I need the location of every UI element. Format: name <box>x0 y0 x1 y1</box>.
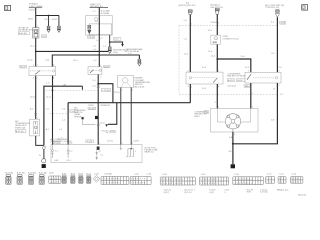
compressor clutch terminal circle <box>43 147 46 150</box>
svg-text:4-(2Y): 4-(2Y) <box>133 140 139 142</box>
ground stack G1: link box <box>108 47 111 50</box>
condenser fan motor box <box>211 109 259 133</box>
svg-text:12345678: 12345678 <box>131 179 146 181</box>
compressor text <box>50 138 71 143</box>
svg-text:4: 4 <box>191 86 192 88</box>
wire: relay A-08 out down <box>97 74 99 144</box>
svg-text:DK-B: DK-B <box>52 19 58 21</box>
connector A-07 <box>17 172 25 185</box>
svg-text:FAN MOTOR RELAY: FAN MOTOR RELAY <box>227 75 247 78</box>
fusible link symbol 2 <box>57 26 60 32</box>
svg-text:(A/C) B-09: (A/C) B-09 <box>135 85 146 88</box>
svg-text:123: 123 <box>266 178 272 180</box>
svg-text:12: 12 <box>29 179 33 181</box>
connector B-13 <box>86 173 91 183</box>
clutch coil circle <box>42 159 46 163</box>
svg-text:A-07 (B): A-07 (B) <box>16 130 24 133</box>
wire drop to FL symbol 2 <box>58 16 60 27</box>
svg-text:123: 123 <box>266 182 272 184</box>
notes wire continuation <box>96 150 98 160</box>
node junction (232.9,143.8) <box>232 143 234 145</box>
svg-text:(2Y-1): (2Y-1) <box>108 140 114 142</box>
dashed boundary left y=113.8 <box>50 113 67 115</box>
svg-text:(2Y) 4-J: (2Y) 4-J <box>184 192 191 194</box>
svg-text:12: 12 <box>71 178 75 180</box>
notes wire 4 stub <box>120 145 122 151</box>
fusible link FL feed label <box>29 4 43 12</box>
svg-text:2: 2 <box>132 90 133 92</box>
svg-text:1: 1 <box>122 90 123 92</box>
sensor bottom labels <box>88 36 111 42</box>
wire bus y=59 to relay2 <box>217 59 251 72</box>
svg-text:FUSE 10A: FUSE 10A <box>15 126 25 129</box>
connector A-30 wide <box>49 172 61 184</box>
fan motor symbol M1 <box>225 114 240 129</box>
svg-text:2: 2 <box>37 78 38 80</box>
svg-text:1234567890123: 1234567890123 <box>161 179 184 181</box>
svg-text:(2Y-0): (2Y-0) <box>114 92 120 94</box>
feed 3 connector symbol <box>275 10 279 17</box>
svg-text:A-05X: A-05X <box>245 85 251 88</box>
pressure switch terminal dot <box>82 117 84 119</box>
node junction (48.5,15.5) <box>48 15 50 17</box>
connector B-05 <box>71 173 76 183</box>
node junction (217.3,59) <box>216 58 218 60</box>
svg-text:2(2B): 2(2B) <box>280 23 285 25</box>
relay A-08 box <box>88 67 102 75</box>
connector B-09 <box>79 173 84 183</box>
svg-text:1: 1 <box>45 146 46 148</box>
svg-text:•B W: •B W <box>246 192 251 194</box>
svg-text:A-05 (B): A-05 (B) <box>39 172 47 175</box>
svg-text:2L-05: 2L-05 <box>27 60 33 62</box>
connector C-10 <box>266 173 275 183</box>
wire inside box down <box>98 16 100 36</box>
svg-text:12: 12 <box>87 182 91 184</box>
connector B-03 <box>62 173 67 183</box>
extra wire color labels <box>30 39 275 122</box>
notes wire 5 prongs <box>126 145 134 157</box>
connector pin numbers small left <box>7 178 92 185</box>
svg-text:(MULTI) (W/O MT): (MULTI) (W/O MT) <box>179 5 196 7</box>
wire stub into notes box <box>97 147 100 150</box>
wire drop to ground stack 2 <box>138 55 140 59</box>
svg-text:A-05X: A-05X <box>228 79 234 82</box>
svg-text:1: 1 <box>122 143 123 145</box>
svg-text:4: 4 <box>53 78 54 80</box>
svg-text:12345678901: 12345678901 <box>200 179 219 181</box>
svg-text:JC (B): JC (B) <box>86 141 92 143</box>
svg-text:12: 12 <box>63 182 67 184</box>
svg-text:12: 12 <box>40 179 44 181</box>
svg-text:1: 1 <box>252 106 253 108</box>
arrow target text <box>125 48 143 53</box>
svg-text:5-J: 5-J <box>55 151 58 153</box>
wire arrow to condenser page <box>110 42 123 44</box>
svg-text:(2-1): (2-1) <box>46 97 51 99</box>
svg-text:2 (2Y-B): 2 (2Y-B) <box>260 192 268 194</box>
svg-text:12345678901: 12345678901 <box>200 183 219 185</box>
wire bus B y=55 <box>52 55 139 67</box>
wire: line down into sensor box <box>98 7 100 15</box>
svg-text:CONNECTOR (2): CONNECTOR (2) <box>222 38 239 40</box>
ref label C-0B <box>70 110 78 113</box>
joint connector text <box>222 36 239 40</box>
svg-text:1234567890123: 1234567890123 <box>161 183 184 185</box>
wire bus A y=51.4 to ground stack <box>36 50 109 52</box>
connector C-08 diamond <box>93 173 100 182</box>
relay2 lower left labels <box>244 85 251 88</box>
temp switch pin wires <box>120 88 122 145</box>
relay2 A/C relay box <box>245 72 281 83</box>
connector A-02 <box>5 172 13 185</box>
svg-text:123: 123 <box>279 178 285 180</box>
svg-text:1234: 1234 <box>291 182 299 184</box>
wire drop to FL symbol 1 <box>48 16 50 27</box>
compressor ground <box>42 164 46 168</box>
fan ground symbol <box>231 164 235 168</box>
footnote text 2 <box>184 190 195 194</box>
svg-text:B-05X: B-05X <box>237 80 243 82</box>
svg-text:1: 1 <box>99 143 100 145</box>
svg-text:5-J: 5-J <box>69 151 72 153</box>
node junction (99.3,55) <box>98 54 100 56</box>
wire: bus branch down to page arrow <box>108 103 117 125</box>
relay AC08 (A/C compressor relay) box <box>29 67 56 76</box>
svg-text:12345: 12345 <box>50 178 60 180</box>
svg-text:CONTROL (W): CONTROL (W) <box>265 7 279 9</box>
ref label JC(B) <box>88 107 96 110</box>
svg-text:(W/ RELAY BOX): (W/ RELAY BOX) <box>18 29 34 32</box>
fan motor text <box>194 111 208 117</box>
footnote text 3 <box>209 190 216 194</box>
temp switch text <box>135 78 151 89</box>
svg-text:1: 1 <box>37 65 38 67</box>
svg-text:B-03: B-03 <box>213 42 217 44</box>
svg-text:4x: (2Y-10): 4x: (2Y-10) <box>106 132 116 134</box>
relay1 condenser fan relay box <box>186 72 223 84</box>
wire: isolator down to relay AC08 <box>35 38 37 67</box>
wire: relay2 left pin down to fan box <box>250 83 252 109</box>
ground name text <box>113 50 129 54</box>
footnote text 5 <box>246 189 252 193</box>
svg-text:JOINT: JOINT <box>88 105 95 107</box>
svg-text:ASSY: ASSY <box>194 115 200 118</box>
svg-text:(2-B): (2-B) <box>113 52 118 54</box>
wire: sensor left pin down to bus <box>98 35 100 67</box>
ground stack G1: triangle <box>108 51 111 54</box>
joint connector box on feed2 <box>211 35 221 44</box>
wire: relay AC08 right out down <box>52 76 54 145</box>
relay A-08 ref label <box>104 65 110 68</box>
svg-text:1: 1 <box>37 118 38 120</box>
svg-text:4-03 4-05: 4-03 4-05 <box>227 86 237 88</box>
node junction (35.7,51.4) <box>35 51 37 53</box>
svg-text:CN-04: CN-04 <box>29 10 36 12</box>
svg-text:12: 12 <box>79 182 83 184</box>
connector C-33 long <box>130 173 152 184</box>
wire down to clutch coil <box>43 149 45 158</box>
wire: branch bus y=15.5 <box>36 15 59 17</box>
wire: main bus y=102.7 <box>68 102 190 104</box>
wire: FL down to isolator <box>35 8 37 28</box>
svg-text:1: 1 <box>252 93 253 95</box>
svg-text:12: 12 <box>7 179 11 181</box>
svg-text:12: 12 <box>40 183 44 185</box>
connector tick on wire <box>34 113 37 115</box>
dashed boundary left y=144 <box>53 143 66 145</box>
svg-text:12: 12 <box>29 183 33 185</box>
fusible link symbol 1 <box>47 26 50 32</box>
relay1 side text <box>227 73 247 87</box>
svg-text:A-08 (B): A-08 (B) <box>28 172 36 175</box>
relay AC08 ref label <box>20 65 27 68</box>
ground stack G2: link box <box>138 59 141 62</box>
wire: fuse out to compressor <box>36 136 44 146</box>
coolant temp switch box <box>118 76 134 88</box>
node junction (52.5,90.3) <box>52 89 54 91</box>
fuse left text <box>15 120 30 133</box>
svg-text:C-28 (B): C-28 (B) <box>104 173 112 175</box>
svg-text:(2-0): (2-0) <box>42 36 47 38</box>
ground stack G2: triangle <box>138 63 141 66</box>
svg-text:MB2A-1 (xx): MB2A-1 (xx) <box>277 188 289 191</box>
svg-text:3: 3 <box>278 85 279 87</box>
to-arrow glyph <box>58 137 63 140</box>
pressure switch link wire <box>83 119 96 124</box>
dashed boundary box right <box>179 26 277 95</box>
svg-text:DK-B: DK-B <box>45 19 51 21</box>
svg-text:PAGE 4-0: PAGE 4-0 <box>145 151 155 154</box>
notes wire 2 continuation <box>67 146 69 158</box>
feed 2 header text <box>210 5 223 9</box>
page index box 1 <box>5 5 11 10</box>
wire: sensor right pin down <box>109 35 111 47</box>
connector A-05X <box>39 172 47 185</box>
connector tick on pressure wire <box>97 124 100 126</box>
node junction (109.7,42) <box>109 41 111 43</box>
footnote text 6 <box>260 189 268 193</box>
svg-text:123: 123 <box>279 182 285 184</box>
isolator right ref label <box>41 35 46 38</box>
svg-text:1234567891: 1234567891 <box>102 183 121 185</box>
svg-text:A-05 (B): A-05 (B) <box>19 32 27 35</box>
labels above notes box <box>53 140 94 145</box>
svg-text:PRESS.): PRESS.) <box>74 116 83 118</box>
joint ref label on dashed <box>101 89 111 92</box>
wire: fan motor ground <box>232 132 234 164</box>
feed 1 header text <box>179 1 196 7</box>
svg-text:12: 12 <box>87 178 91 180</box>
svg-text:12: 12 <box>63 178 67 180</box>
svg-text:(2-1): (2-1) <box>100 122 105 124</box>
connector C-20 <box>291 173 303 183</box>
wire: feed1 down to relay <box>189 15 191 73</box>
feed 2 connector symbol <box>215 8 219 14</box>
arrow head down <box>105 124 108 127</box>
wire: branch right and down to main bus <box>98 84 113 103</box>
svg-text:4-(2Y): 4-(2Y) <box>164 192 170 194</box>
svg-text:JC (B): JC (B) <box>89 108 95 110</box>
feed 1 connector symbol <box>188 10 192 15</box>
isolator U1 box <box>33 28 39 38</box>
wire: relay1 right pin down to fan box <box>216 84 218 109</box>
svg-text:2: 2 <box>132 143 133 145</box>
svg-text:2: 2 <box>100 77 101 79</box>
wire: feed2 down to relay <box>216 14 218 72</box>
feed 3 header text <box>265 4 284 9</box>
svg-text:12345678901: 12345678901 <box>234 179 253 181</box>
notes wire 1 continuation <box>51 145 53 158</box>
battery line label <box>90 4 110 15</box>
connector pin numbers row1 <box>102 179 146 185</box>
connector pin numbers row2 <box>161 179 253 185</box>
svg-text:12345: 12345 <box>50 182 60 184</box>
notes box <box>51 145 142 163</box>
svg-text:12: 12 <box>18 179 22 181</box>
wire: bus left leg down to junction block <box>67 103 69 146</box>
pressure switch terminal square <box>95 116 98 119</box>
svg-text:(2-0): (2-0) <box>68 142 73 144</box>
battery sensor box U2 <box>86 16 113 36</box>
svg-text:1234567891: 1234567891 <box>102 179 121 181</box>
svg-text:1: 1 <box>100 65 101 67</box>
svg-text:A/C SENSOR: A/C SENSOR <box>97 104 110 107</box>
fan connector ref <box>204 111 209 114</box>
footnote text 4 <box>224 190 230 194</box>
svg-text:AC40-05: AC40-05 <box>298 194 307 197</box>
svg-text:12: 12 <box>79 178 83 180</box>
connector C-12 <box>278 173 286 183</box>
dashed boundary left y=90.3 <box>46 89 98 91</box>
note text right of notes box <box>145 147 159 153</box>
svg-text:3: 3 <box>218 86 219 88</box>
svg-text:12: 12 <box>71 182 75 184</box>
connector C-32 long <box>200 174 229 185</box>
pin tick labels <box>37 65 280 149</box>
ref label CN-0 <box>114 38 121 41</box>
svg-text:12345678: 12345678 <box>131 183 146 185</box>
svg-text:12: 12 <box>7 183 11 185</box>
svg-text:AC08: AC08 <box>20 66 26 69</box>
svg-text:JC (B): JC (B) <box>54 142 60 144</box>
svg-text:3: 3 <box>53 65 54 67</box>
page index box 2 <box>302 5 308 10</box>
fuse F1 box <box>30 119 40 136</box>
connector C-28 long <box>101 173 129 184</box>
connector A-08 <box>28 172 36 185</box>
svg-text:1234: 1234 <box>291 178 299 180</box>
connector C-30 long <box>160 174 195 185</box>
connector pin numbers small right <box>266 178 299 183</box>
connector tick on wire <box>97 86 100 88</box>
svg-text:1: 1 <box>53 143 54 145</box>
arrow head <box>121 44 124 47</box>
pressure switch terminal stub <box>81 86 83 90</box>
wire: relay1 left pin down to main bus corner <box>189 84 191 103</box>
wire: feed3 down to relay2 <box>276 17 278 72</box>
svg-text:12: 12 <box>18 183 22 185</box>
svg-text:(2-0): (2-0) <box>114 39 119 41</box>
svg-text:4-(2): 4-(2) <box>209 192 214 194</box>
svg-text:C-28 (B): C-28 (B) <box>102 90 110 92</box>
svg-text:DK-B: DK-B <box>28 19 34 21</box>
wire: relay AC08 left out down to fuse <box>35 76 37 120</box>
footnote text 1 <box>164 190 172 194</box>
svg-text:CN-02: CN-02 <box>88 37 95 39</box>
svg-text:A-07 (B): A-07 (B) <box>17 172 25 175</box>
node junction (98.2,83.7) <box>97 83 99 85</box>
svg-text:B-2(30A): B-2(30A) <box>101 12 110 15</box>
svg-text:A-02 (B): A-02 (B) <box>5 172 13 175</box>
svg-text:2: 2 <box>234 134 235 136</box>
svg-text:(2-0): (2-0) <box>30 97 35 99</box>
isolator left text <box>18 26 34 35</box>
wire: compressor feed from bus y=86.2 <box>44 86 83 145</box>
joint text above square <box>88 104 110 107</box>
connector C-34 long <box>233 174 264 185</box>
wire: relay2 right pin down and left to ground wire <box>233 83 278 144</box>
svg-text:12345678901: 12345678901 <box>234 183 253 185</box>
sensor internal link + triangle <box>88 25 91 33</box>
svg-text:CN-04: CN-04 <box>211 22 218 24</box>
pressure switch text block <box>74 107 86 119</box>
